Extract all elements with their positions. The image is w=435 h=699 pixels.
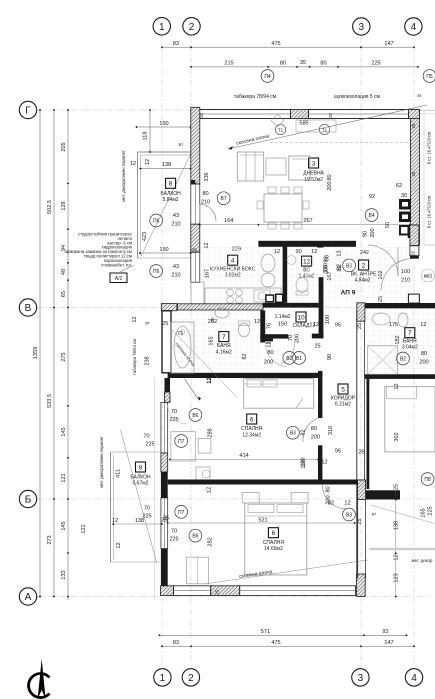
- svg-text:100: 100: [325, 315, 331, 324]
- svg-text:165: 165: [421, 508, 427, 517]
- svg-text:225: 225: [145, 442, 154, 448]
- svg-text:138: 138: [394, 521, 400, 530]
- svg-text:25: 25: [210, 317, 215, 322]
- svg-text:2: 2: [362, 262, 366, 269]
- svg-text:табакера 78/94 см: табакера 78/94 см: [234, 94, 277, 100]
- tv unit top: [296, 120, 336, 132]
- east pier below: [410, 256, 419, 259]
- axis bubble 4 bottom: [405, 669, 422, 686]
- svg-text:25: 25: [357, 323, 363, 329]
- svg-text:43: 43: [173, 213, 179, 219]
- svg-text:70: 70: [171, 409, 177, 415]
- left dim chain 3: [67, 110, 69, 600]
- svg-text:25: 25: [314, 344, 320, 350]
- svg-text:82: 82: [301, 429, 307, 435]
- east wall bed2 hatch upper: [358, 480, 366, 500]
- svg-text:П7: П7: [178, 510, 185, 516]
- west wall upper hatch: [191, 107, 200, 184]
- vs east wall stub top: [317, 243, 323, 248]
- svg-text:стоманобет. пл.: стоманобет. пл.: [101, 262, 132, 267]
- bedroom1 label: [247, 414, 257, 424]
- svg-text:200: 200: [294, 334, 300, 343]
- axis bubble Б left: [19, 490, 36, 507]
- kitchen label: [228, 255, 238, 265]
- left dim total 1359: [39, 110, 41, 597]
- corridor pier top: [357, 303, 365, 321]
- svg-text:225: 225: [169, 417, 178, 423]
- bathtub: [171, 322, 194, 373]
- antre label: [359, 260, 369, 270]
- bottom dimension row 1: [160, 634, 407, 636]
- marker V2 right: [397, 352, 410, 365]
- svg-text:1: 1: [159, 22, 165, 33]
- svg-text:80: 80: [326, 486, 332, 492]
- svg-text:3: 3: [358, 673, 364, 684]
- bedroom2 label: [268, 528, 278, 538]
- svg-text:АП 9: АП 9: [341, 290, 356, 297]
- svg-text:475: 475: [271, 640, 280, 646]
- svg-text:12: 12: [207, 487, 213, 493]
- right apt sink: [372, 313, 390, 325]
- bed2 west window: [161, 498, 168, 549]
- top wall window band: [200, 110, 291, 119]
- svg-text:12: 12: [130, 161, 136, 167]
- svg-text:138: 138: [162, 162, 171, 168]
- svg-text:табакера 78/94 см: табакера 78/94 см: [132, 339, 137, 375]
- svg-text:65: 65: [61, 291, 67, 297]
- svg-text:В2: В2: [286, 356, 292, 362]
- svg-text:7: 7: [408, 330, 412, 337]
- svg-text:423: 423: [142, 232, 148, 241]
- svg-text:В2: В2: [400, 357, 406, 363]
- stair landing lines: [420, 109, 435, 111]
- wall bed2 east arm: [366, 490, 400, 499]
- marker V3 bed1: [287, 426, 300, 439]
- axis bubble 1 bottom: [154, 669, 171, 686]
- svg-text:В: В: [25, 303, 32, 314]
- svg-text:вт: вт: [372, 512, 376, 517]
- balcony1 dim line 138: [140, 168, 190, 170]
- balcony door arc: [200, 204, 216, 222]
- east dim line: [395, 490, 397, 597]
- svg-text:133: 133: [61, 570, 67, 579]
- kitchen sink column: [261, 254, 275, 272]
- west wall jamb nub: [191, 180, 196, 184]
- bed2: [245, 503, 307, 575]
- svg-text:8: 8: [139, 464, 143, 471]
- svg-text:А: А: [25, 592, 32, 603]
- kitchen south wall corner: [161, 304, 177, 311]
- svg-text:145: 145: [61, 427, 67, 436]
- svg-text:6: 6: [250, 416, 254, 423]
- svg-text:76: 76: [267, 323, 273, 329]
- svg-text:25: 25: [215, 590, 220, 595]
- svg-text:БАНЯ: БАНЯ: [217, 343, 231, 349]
- svg-text:275: 275: [61, 352, 67, 361]
- svg-text:48: 48: [61, 269, 67, 275]
- svg-text:мет. декоративен парапет: мет. декоративен парапет: [121, 150, 126, 202]
- axis bubble А left: [19, 588, 36, 605]
- facade line west: [154, 378, 156, 600]
- marker P7 b2: [175, 505, 188, 518]
- slope dashed break line: [270, 142, 410, 144]
- balcony1 room label: [166, 178, 176, 188]
- bed1 slope line: [185, 379, 200, 401]
- axis bubble 4 top: [405, 18, 422, 35]
- T1 marker right: [319, 124, 329, 134]
- svg-text:1359: 1359: [33, 347, 39, 359]
- svg-text:273: 273: [47, 535, 53, 544]
- balcony2 top edge: [111, 451, 162, 453]
- axis bubble В left: [19, 299, 36, 316]
- axis grid line 1: [161, 34, 163, 668]
- balcony1 railing left: [137, 152, 139, 258]
- svg-text:164: 164: [224, 218, 233, 224]
- bath slope line: [172, 330, 237, 397]
- svg-text:475: 475: [271, 41, 280, 47]
- bed2 nightstand R: [291, 493, 308, 504]
- side table: [266, 158, 286, 175]
- svg-text:4: 4: [411, 673, 417, 684]
- svg-text:25: 25: [163, 516, 169, 522]
- right apt shower: [368, 346, 398, 375]
- right apt shaft bump: [408, 294, 419, 303]
- svg-text:10: 10: [297, 314, 305, 321]
- corridor east wall line2: [364, 310, 366, 480]
- svg-text:12: 12: [207, 377, 213, 383]
- axis grid line V: [37, 307, 430, 309]
- axis grid line 4: [413, 34, 415, 668]
- sklad south wall: [260, 334, 288, 338]
- bed2 slope line: [206, 560, 368, 584]
- west wall bath stub: [165, 378, 171, 392]
- svg-text:ДНЕВНА: ДНЕВНА: [303, 171, 324, 177]
- marker V3 antre: [343, 259, 356, 272]
- svg-text:мет. декор: мет. декор: [412, 558, 433, 563]
- svg-text:43: 43: [173, 264, 179, 270]
- kitchen tile floor: [202, 247, 283, 303]
- svg-text:302: 302: [394, 432, 400, 441]
- east diag line: [371, 505, 434, 523]
- svg-text:200: 200: [370, 228, 376, 237]
- svg-text:5: 5: [341, 386, 345, 393]
- svg-text:80: 80: [267, 350, 273, 356]
- corridor east wall line1: [356, 310, 358, 583]
- svg-text:мв1: мв1: [424, 274, 433, 280]
- svg-text:128: 128: [61, 201, 67, 210]
- bottom wall left corner: [161, 586, 174, 596]
- svg-text:150: 150: [159, 247, 168, 253]
- leader line A2: [120, 265, 134, 272]
- bedroom2 wardrobe: [187, 557, 209, 584]
- svg-text:90: 90: [362, 231, 368, 237]
- svg-text:12: 12: [266, 341, 272, 347]
- wall living south: [258, 241, 356, 247]
- svg-text:13: 13: [337, 250, 343, 256]
- svg-text:502.5: 502.5: [47, 200, 53, 214]
- corridor label: [338, 384, 348, 394]
- svg-text:200: 200: [311, 435, 320, 441]
- svg-text:12: 12: [344, 501, 350, 507]
- bottom wall hatch pier: [211, 586, 240, 596]
- sklad door arc: [281, 341, 295, 364]
- svg-text:118: 118: [143, 132, 149, 141]
- marker P5 right: [423, 70, 435, 83]
- svg-text:175: 175: [389, 322, 398, 328]
- svg-text:14.69м2: 14.69м2: [264, 546, 283, 552]
- axis bubble 1 top: [153, 18, 170, 35]
- wall bed1/bed2: [168, 480, 366, 485]
- sofa: [237, 152, 263, 181]
- bed1 west wall black: [161, 472, 168, 498]
- svg-text:200: 200: [264, 360, 273, 366]
- east pier box 25: [410, 246, 419, 256]
- bed1 window arc: [168, 405, 187, 424]
- svg-text:12: 12: [112, 518, 118, 524]
- axis bubble Г left: [19, 101, 36, 118]
- kitchen sink right: [254, 290, 270, 302]
- bath toilet: [239, 323, 250, 337]
- svg-text:310: 310: [328, 426, 334, 435]
- svg-text:вт: вт: [179, 142, 183, 147]
- svg-text:35: 35: [300, 60, 306, 66]
- right apt slab line: [369, 548, 435, 550]
- sklad label: [296, 312, 306, 322]
- svg-text:82: 82: [242, 353, 248, 359]
- dining table: [264, 194, 302, 222]
- svg-text:215: 215: [224, 61, 233, 67]
- svg-text:П8: П8: [424, 477, 431, 483]
- vs east wall: [319, 277, 324, 338]
- bed1 west wall hatch: [161, 453, 168, 472]
- svg-text:12: 12: [132, 316, 138, 322]
- bottom wall window band1: [174, 586, 211, 596]
- bottom wall window band2: [240, 586, 356, 596]
- svg-text:225: 225: [428, 506, 434, 515]
- svg-text:83: 83: [173, 640, 179, 646]
- east pier hatch antre: [410, 225, 419, 246]
- right apt toilet: [398, 313, 408, 327]
- shaft boxes east: [399, 199, 411, 210]
- svg-text:8 ст. 16.47/29 см: 8 ст. 16.47/29 см: [427, 132, 432, 165]
- balcony1 dim 150 lower: [140, 252, 191, 254]
- marker V2: [283, 352, 296, 365]
- svg-text:12: 12: [116, 542, 122, 548]
- right apt bed: [385, 387, 435, 452]
- svg-text:2: 2: [188, 673, 194, 684]
- axis grid line G: [37, 109, 430, 111]
- svg-text:205: 205: [61, 142, 67, 151]
- svg-text:П5: П5: [426, 74, 433, 80]
- svg-text:СКЛАД: СКЛАД: [293, 323, 310, 329]
- svg-text:25: 25: [411, 171, 416, 176]
- sklad south foot: [263, 339, 273, 342]
- svg-text:80: 80: [311, 426, 317, 432]
- left dim chain 2: [53, 110, 55, 597]
- living dims 164/267: [200, 224, 420, 226]
- entry door arc mv1: [381, 259, 410, 291]
- vs sink: [287, 256, 296, 265]
- svg-text:123: 123: [394, 573, 400, 582]
- svg-text:В7: В7: [221, 196, 227, 202]
- svg-text:8 ст. 16.47/29 см: 8 ст. 16.47/29 см: [427, 196, 432, 229]
- east wall hatch upper: [411, 110, 420, 246]
- svg-text:вт: вт: [417, 93, 421, 98]
- west wall kitchen window: [191, 252, 200, 282]
- top dimension row 1: [162, 46, 414, 48]
- svg-text:70: 70: [288, 335, 294, 341]
- right apt bath label: [405, 328, 415, 338]
- balcony1 railing top: [138, 151, 191, 153]
- svg-text:80: 80: [320, 61, 326, 67]
- svg-text:12: 12: [309, 323, 315, 329]
- svg-text:225: 225: [142, 514, 151, 520]
- svg-text:1.14м2: 1.14м2: [275, 314, 291, 320]
- antre tile floor: [323, 247, 410, 302]
- svg-text:30: 30: [401, 193, 407, 199]
- bed2 door marker V3: [343, 508, 356, 521]
- svg-text:В3: В3: [346, 513, 352, 519]
- north arrow needle: [38, 659, 46, 699]
- svg-text:Т1: Т1: [278, 128, 284, 133]
- svg-text:Г: Г: [25, 106, 31, 117]
- stair edge line right: [423, 110, 425, 245]
- bed2 door arc: [322, 485, 347, 509]
- bottom wall east pier: [357, 574, 366, 597]
- marker V1: [293, 352, 306, 365]
- svg-text:50: 50: [385, 222, 391, 228]
- marker P7 b1: [175, 435, 188, 448]
- svg-text:533.5: 533.5: [47, 394, 53, 408]
- svg-text:121: 121: [61, 473, 67, 482]
- east wall bed2 double line: [357, 500, 359, 579]
- bed2 nightstand L: [242, 493, 259, 504]
- bed1 corner fold: [296, 398, 303, 408]
- svg-text:4.84м2: 4.84м2: [355, 278, 371, 284]
- svg-text:П6: П6: [153, 269, 160, 275]
- svg-text:20: 20: [328, 113, 333, 118]
- top dimension row 2: [191, 66, 418, 68]
- bed2 pillows: [248, 505, 274, 513]
- svg-text:200: 200: [419, 360, 428, 366]
- bed2 west wall black lower: [161, 549, 168, 588]
- svg-text:25: 25: [411, 123, 416, 128]
- svg-text:336: 336: [204, 172, 210, 181]
- svg-text:2: 2: [189, 22, 195, 33]
- svg-text:70: 70: [171, 529, 177, 535]
- svg-text:4: 4: [411, 22, 417, 33]
- svg-text:25: 25: [394, 484, 400, 490]
- vs toilet: [296, 278, 308, 293]
- corridor west wall upper: [318, 371, 322, 418]
- label box A/2: [110, 273, 127, 283]
- axis bubble 3 bottom: [352, 669, 369, 686]
- balcony1 bottom edge: [138, 257, 191, 259]
- svg-text:Б: Б: [25, 495, 32, 506]
- svg-text:95: 95: [335, 323, 341, 329]
- bottom dimension row 2: [162, 645, 414, 647]
- slope line living: [228, 105, 427, 149]
- marker V6 b2: [189, 529, 202, 542]
- svg-text:80: 80: [202, 191, 208, 197]
- bed1 cabinet: [171, 432, 195, 461]
- svg-text:25: 25: [410, 251, 415, 256]
- svg-text:267: 267: [303, 218, 312, 224]
- svg-text:12: 12: [394, 383, 400, 389]
- svg-text:мет. декоративен парапет: мет. декоративен парапет: [99, 436, 104, 488]
- svg-text:3: 3: [312, 160, 316, 167]
- svg-text:145: 145: [61, 521, 67, 530]
- svg-text:6: 6: [272, 530, 276, 537]
- svg-text:80: 80: [327, 174, 333, 180]
- svg-text:12: 12: [394, 554, 400, 560]
- bath north wall hatch: [178, 304, 263, 310]
- svg-text:95: 95: [335, 449, 341, 455]
- bath sink: [215, 308, 229, 318]
- svg-text:П7: П7: [178, 439, 185, 445]
- bath south wall: [168, 373, 323, 378]
- svg-text:521: 521: [258, 518, 267, 524]
- svg-text:100: 100: [301, 459, 307, 468]
- svg-text:12: 12: [145, 159, 151, 165]
- svg-text:5.84м2: 5.84м2: [163, 197, 179, 203]
- bath label: [219, 332, 229, 342]
- svg-text:СПАЛНЯ: СПАЛНЯ: [241, 426, 263, 432]
- svg-text:90: 90: [327, 354, 333, 360]
- marker P8: [421, 473, 434, 486]
- vs label: [302, 256, 312, 266]
- svg-text:5.67м2: 5.67м2: [133, 481, 149, 487]
- balcony2 label: [136, 462, 146, 472]
- marker P6 lower: [150, 265, 163, 278]
- svg-text:62: 62: [396, 183, 402, 189]
- svg-text:150: 150: [159, 121, 168, 127]
- svg-text:вт: вт: [145, 321, 149, 326]
- svg-text:П4: П4: [264, 74, 271, 80]
- marker V4: [365, 209, 378, 222]
- bed1 small table: [198, 439, 211, 454]
- west wall lower pier: [191, 224, 200, 252]
- wall vs/sklad south: [263, 303, 319, 308]
- kitchen counter left: [191, 282, 204, 304]
- svg-text:200: 200: [327, 181, 333, 190]
- north arrow arc: [29, 674, 50, 698]
- svg-text:70: 70: [144, 506, 150, 512]
- kitchen dark appliance: [265, 294, 274, 302]
- west wall window: [191, 184, 200, 224]
- axis bubble 2 top: [183, 18, 200, 35]
- svg-text:А/2: А/2: [115, 276, 123, 282]
- svg-text:147: 147: [384, 640, 393, 646]
- svg-text:282: 282: [208, 537, 214, 546]
- svg-text:411: 411: [116, 469, 122, 478]
- balcony1 dim 118 line: [149, 110, 151, 152]
- svg-text:7: 7: [222, 334, 226, 341]
- kitchen counter bottom: [205, 288, 281, 304]
- shaft box antre: [399, 225, 410, 236]
- axis grid line B: [37, 498, 430, 500]
- svg-text:150: 150: [278, 322, 287, 328]
- svg-text:В4: В4: [369, 213, 375, 219]
- bed1 desk: [196, 467, 210, 483]
- axis grid line 3: [360, 34, 362, 668]
- svg-text:92: 92: [369, 194, 375, 200]
- balcony2 railing: [110, 452, 112, 562]
- svg-text:571: 571: [261, 629, 270, 635]
- T1 marker left: [275, 124, 285, 134]
- T1 diamond: [271, 114, 284, 127]
- svg-text:12: 12: [420, 322, 426, 328]
